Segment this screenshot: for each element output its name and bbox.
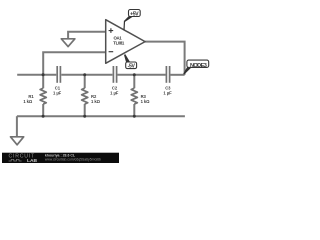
svg-text:1 µF: 1 µF <box>163 90 172 95</box>
svg-text:LAB: LAB <box>27 158 38 164</box>
svg-text:1 kΩ: 1 kΩ <box>23 99 33 104</box>
svg-text:TL081: TL081 <box>113 41 125 46</box>
svg-text:+5V: +5V <box>130 11 139 17</box>
svg-text:1 kΩ: 1 kΩ <box>91 99 101 104</box>
svg-text:-5V: -5V <box>128 63 136 69</box>
svg-text:1 µF: 1 µF <box>110 90 119 95</box>
svg-text:1 kΩ: 1 kΩ <box>141 99 151 104</box>
svg-text:NODE3: NODE3 <box>190 63 207 69</box>
svg-text:www.circuitlab.com/c6q5Sa6y5mG: www.circuitlab.com/c6q5Sa6y5mG6b <box>45 158 101 162</box>
svg-text:1 µF: 1 µF <box>53 90 62 95</box>
